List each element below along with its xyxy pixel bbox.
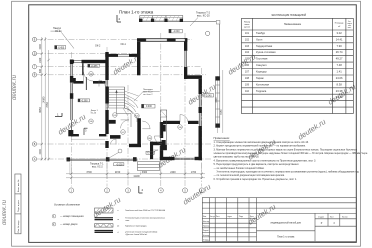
svg-text:1. Спецификацию элементов запо: 1. Спецификацию элементов заполнения две… bbox=[214, 141, 310, 144]
interior wall hall bottom bbox=[73, 81, 83, 84]
windows right wall bbox=[198, 94, 200, 107]
svg-text:индивидуальный жилой дом: индивидуальный жилой дом bbox=[271, 221, 302, 224]
svg-text:выс. КС-2: выс. КС-2 bbox=[92, 166, 103, 169]
svg-text:Холл: Холл bbox=[256, 37, 263, 41]
windows left wall bbox=[70, 64, 72, 76]
LEGEND bbox=[53, 204, 84, 226]
corridor walls bbox=[109, 120, 116, 124]
table rows bbox=[245, 31, 343, 99]
svg-text:-1.040: -1.040 bbox=[205, 95, 212, 97]
top wall window boxes bbox=[146, 39, 185, 41]
svg-text:105: 105 bbox=[245, 58, 250, 61]
svg-text:2. Кирпич предусмотреть керами: 2. Кирпич предусмотреть керамический пол… bbox=[214, 145, 307, 148]
svg-text:deutek.ru: deutek.ru bbox=[2, 199, 8, 225]
svg-text:— по технологической документа: — по технологической документации постав… bbox=[214, 174, 286, 177]
windows as double thin lines bbox=[67, 51, 202, 161]
left dim texts rotated bbox=[39, 44, 49, 155]
svg-text:8.38: 8.38 bbox=[336, 82, 342, 86]
svg-text:800: 800 bbox=[39, 68, 42, 73]
stair arrow bbox=[117, 92, 132, 127]
svg-text:Теплоизоляция из жестких минер: Теплоизоляция из жестких минераловатных bbox=[125, 217, 165, 219]
svg-text:Гардеробная: Гардеробная bbox=[256, 44, 273, 48]
window sill tint bbox=[70, 51, 201, 126]
svg-text:2150: 2150 bbox=[115, 171, 121, 174]
closet partition bbox=[82, 63, 83, 75]
bottom dimension lines bbox=[66, 174, 205, 178]
svg-text:1700: 1700 bbox=[191, 171, 197, 174]
top-left wall bbox=[70, 60, 74, 63]
svg-text:23.38: 23.38 bbox=[336, 89, 343, 93]
axis B horizontal bbox=[37, 143, 212, 145]
svg-text:Санузел: Санузел bbox=[256, 63, 267, 67]
winders bbox=[125, 87, 138, 122]
svg-text:8150: 8150 bbox=[221, 109, 223, 115]
top wall center section bbox=[137, 38, 187, 42]
window axis2 wall bbox=[105, 80, 107, 87]
axis circle top right bbox=[205, 31, 209, 35]
svg-text:102: 102 bbox=[245, 38, 250, 41]
right porch strip bbox=[216, 77, 220, 128]
svg-text:цветом показаны трубы на листе: цветом показаны трубы на листе АС-18. bbox=[214, 156, 260, 159]
jog wall bbox=[184, 75, 202, 79]
svg-text:110: 110 bbox=[245, 90, 250, 93]
stair annotation bbox=[143, 89, 154, 96]
svg-text:взрыв: взрыв bbox=[348, 23, 352, 25]
window top D wall bbox=[118, 54, 129, 56]
dimension extension lines bottom bbox=[70, 163, 202, 180]
svg-text:Нач.отд: Нач.отд bbox=[203, 221, 209, 223]
svg-text:1300: 1300 bbox=[39, 57, 42, 63]
svg-text:3.02: 3.02 bbox=[336, 31, 342, 35]
svg-text:101: 101 bbox=[245, 32, 250, 35]
elevation marks bbox=[55, 46, 57, 50]
axis A horizontal bbox=[37, 158, 212, 160]
svg-text:Подп. и дата: Подп. и дата bbox=[18, 199, 20, 212]
svg-text:— номер двери: — номер двери bbox=[60, 223, 78, 226]
svg-text:ОК-2: ОК-2 bbox=[95, 44, 101, 47]
watermark deutek.ru repeated bbox=[2, 52, 358, 227]
window right upper bbox=[184, 51, 186, 67]
svg-text:6. Устройство проемов в перего: 6. Устройство проемов в перегородках см.… bbox=[214, 178, 298, 181]
axis circles left column bbox=[32, 37, 36, 161]
svg-text:№док: №док bbox=[227, 215, 232, 218]
svg-text:Терраса: Терраса bbox=[256, 89, 267, 93]
garage divider wall bbox=[163, 121, 180, 124]
svg-text:элементы производства консульт: элементы производства консультаций. Несу… bbox=[214, 152, 369, 155]
svg-text:Лист: Лист bbox=[216, 216, 220, 218]
svg-text:План 1-го этажа: План 1-го этажа bbox=[119, 9, 154, 14]
svg-text:Подп: Подп bbox=[239, 216, 243, 218]
svg-text:Лист: Лист bbox=[330, 216, 334, 218]
svg-text:24.06: 24.06 bbox=[336, 76, 343, 80]
svg-text:утепление блоков толщиной 100м: утепление блоков толщиной 100мм bbox=[125, 230, 158, 233]
door arcs bbox=[84, 72, 189, 155]
svg-text:1.41: 1.41 bbox=[336, 70, 342, 74]
top wall D section bbox=[105, 54, 118, 57]
legend texts bbox=[125, 209, 166, 236]
interior partition lower-left bbox=[71, 134, 79, 136]
svg-text:опас.: опас. bbox=[348, 27, 352, 29]
svg-text:Кол.уч: Кол.уч bbox=[210, 216, 215, 218]
ventilation shaft column bbox=[162, 125, 166, 132]
svg-text:3. Монтаж бетонных перемычек и: 3. Монтаж бетонных перемычек из доборных… bbox=[214, 148, 358, 151]
svg-text:выс. КС-20: выс. КС-20 bbox=[197, 15, 210, 18]
left wall bbox=[70, 60, 73, 65]
bottom dim texts bbox=[86, 171, 196, 178]
axis 4 vertical bbox=[160, 33, 162, 187]
svg-text:плит: плит bbox=[125, 220, 129, 222]
svg-text:0.000: 0.000 bbox=[146, 106, 152, 108]
svg-text:КС-16: КС-16 bbox=[91, 113, 96, 115]
svg-text:3700: 3700 bbox=[86, 171, 92, 174]
svg-text:49.27: 49.27 bbox=[336, 57, 343, 61]
section mark 2 top bbox=[117, 15, 121, 22]
svg-text:ЭКСПЛИКАЦИЯ ПОМЕЩЕНИЙ: ЭКСПЛИКАЦИЯ ПОМЕЩЕНИЙ bbox=[271, 14, 306, 17]
svg-text:3290: 3290 bbox=[216, 97, 218, 103]
svg-text:см. болт 2: см. болт 2 bbox=[143, 94, 153, 96]
svg-text:ОК-1: ОК-1 bbox=[121, 43, 127, 46]
section mark 2 bottom bbox=[139, 186, 143, 193]
svg-text:93.49: 93.49 bbox=[336, 95, 343, 99]
door number circle near entrance bbox=[118, 149, 122, 153]
svg-text:108: 108 bbox=[245, 77, 250, 80]
terrace T-2 top boundary bbox=[139, 21, 220, 76]
axis D horizontal bbox=[37, 53, 142, 55]
left dim ticks bbox=[41, 38, 50, 160]
bottom right wall (garage) bbox=[160, 157, 175, 160]
svg-text:щения: щения bbox=[244, 26, 250, 28]
svg-text:106: 106 bbox=[245, 64, 250, 67]
right dimension lines bbox=[218, 70, 223, 133]
terrace T-1 edge double line bbox=[67, 158, 138, 160]
axis G horizontal bbox=[37, 66, 202, 68]
svg-text:Провер.: Провер. bbox=[203, 226, 210, 228]
svg-text:109: 109 bbox=[245, 83, 250, 86]
svg-text:Утеплитель перегородок, прокла: Утеплитель перегородок, прокладки их в с… bbox=[217, 171, 360, 174]
small labels bbox=[53, 27, 127, 169]
left dimension lines bbox=[42, 37, 49, 161]
right wall lower bbox=[199, 79, 202, 94]
svg-text:Инв. № подл.: Инв. № подл. bbox=[17, 220, 20, 233]
svg-text:2400: 2400 bbox=[170, 171, 176, 174]
garage door bbox=[175, 157, 195, 159]
door flag mark bbox=[84, 128, 88, 135]
axis 1 vertical bbox=[70, 52, 72, 187]
svg-text:Кухня-столовая: Кухня-столовая bbox=[256, 50, 276, 54]
axis 6 vertical bbox=[201, 68, 203, 187]
svg-text:Дата: Дата bbox=[250, 216, 254, 218]
svg-text:-0.450: -0.450 bbox=[147, 153, 154, 155]
stairs bbox=[109, 87, 138, 122]
center protrusion west wall bbox=[137, 42, 140, 76]
WALLS bbox=[67, 38, 202, 161]
svg-text:Гараж: Гараж bbox=[256, 76, 264, 80]
svg-text:Кирпичная перегородка: Кирпичная перегородка bbox=[125, 226, 147, 228]
svg-text:Утверд.: Утверд. bbox=[203, 239, 210, 241]
axis circles bottom row bbox=[69, 188, 204, 193]
svg-text:-1.040: -1.040 bbox=[173, 31, 180, 33]
vestibule walls bbox=[150, 142, 167, 160]
terrace T-2 label bbox=[196, 12, 211, 18]
section line segment bbox=[85, 77, 88, 90]
window top-left wall bbox=[74, 60, 81, 62]
svg-text:Стадия: Стадия bbox=[318, 216, 324, 218]
svg-text:Котельная: Котельная bbox=[256, 82, 270, 86]
canopy band above terrace bbox=[140, 16, 183, 22]
svg-text:Тамбур: Тамбур bbox=[256, 31, 266, 35]
svg-text:Разраб.: Разраб. bbox=[203, 230, 210, 232]
table header bbox=[244, 21, 352, 29]
axis E horizontal bbox=[37, 38, 192, 40]
svg-text:7450: 7450 bbox=[46, 102, 49, 108]
svg-text:1500: 1500 bbox=[39, 44, 42, 50]
grid axes dash-dot bbox=[37, 33, 212, 187]
axis V horizontal bbox=[37, 74, 206, 76]
svg-text:6950: 6950 bbox=[39, 107, 42, 113]
entrance steps bbox=[138, 162, 160, 171]
svg-text:deutek.ru: deutek.ru bbox=[12, 74, 18, 100]
svg-text:1500: 1500 bbox=[39, 149, 42, 155]
svg-text:14.41: 14.41 bbox=[336, 37, 343, 41]
axis 3 vertical bbox=[127, 85, 129, 187]
axis 5 vertical bbox=[184, 33, 186, 187]
svg-text:7.90: 7.90 bbox=[336, 44, 342, 48]
svg-text:План 1-го этажа: План 1-го этажа bbox=[277, 236, 295, 238]
svg-text:103: 103 bbox=[245, 45, 250, 48]
svg-text:-0.450: -0.450 bbox=[58, 47, 65, 49]
right upper wall bbox=[184, 38, 187, 51]
shaft outline bbox=[161, 110, 167, 150]
left margin stamp boxes bbox=[15, 174, 21, 234]
bathroom threshold line bbox=[71, 138, 105, 140]
svg-text:5. Перегородки предусмотреть в: 5. Перегородки предусмотреть в два вариа… bbox=[214, 163, 300, 166]
svg-text:«Данные блоки 500кг/м»: «Данные блоки 500кг/м» bbox=[125, 234, 147, 236]
axis 2 vertical bbox=[106, 47, 108, 187]
svg-text:-0.360: -0.360 bbox=[81, 101, 88, 103]
svg-text:КС-2х: КС-2х bbox=[55, 30, 62, 33]
section mark 1 left bbox=[55, 113, 62, 117]
svg-text:4. Выполнить коммуникационные: 4. Выполнить коммуникационные шахты и ве… bbox=[214, 159, 317, 162]
svg-text:Взам. инв. №: Взам. инв. № bbox=[17, 179, 20, 192]
svg-text:14590: 14590 bbox=[42, 96, 45, 103]
terrace T-1 edge posts bbox=[67, 157, 71, 161]
svg-text:-0.450: -0.450 bbox=[91, 66, 98, 68]
svg-text:Наименование: Наименование bbox=[284, 23, 302, 26]
svg-text:— номер помещения: — номер помещения bbox=[60, 215, 84, 218]
svg-text:Гостиная: Гостиная bbox=[256, 57, 268, 61]
svg-text:Листов: Листов bbox=[342, 216, 348, 218]
svg-text:107: 107 bbox=[245, 71, 250, 74]
svg-text:Газобетонный блок D500 по ГОСТ: Газобетонный блок D500 по ГОСТ 31360-НН bbox=[125, 209, 166, 212]
svg-text:3300: 3300 bbox=[142, 171, 148, 174]
svg-text:104: 104 bbox=[245, 51, 250, 54]
garage left wall bbox=[160, 122, 163, 138]
svg-text:11100: 11100 bbox=[133, 175, 140, 178]
legend hatch samples bbox=[95, 208, 114, 233]
svg-text:— из газобетонных блоков толщи: — из газобетонных блоков толщиной 120мм. bbox=[214, 167, 265, 170]
svg-text:Примечания:: Примечания: bbox=[214, 136, 231, 140]
svg-text:7.48: 7.48 bbox=[336, 63, 342, 67]
svg-text:Коридор: Коридор bbox=[256, 70, 267, 74]
svg-text:Условные обозначения: Условные обозначения bbox=[54, 204, 81, 207]
svg-text:к: к bbox=[118, 210, 119, 212]
legend symbol glyphs bbox=[117, 210, 120, 234]
svg-text:26.74: 26.74 bbox=[336, 50, 343, 54]
axis2 wall (stair west) bbox=[105, 52, 108, 80]
svg-text:м²: м² bbox=[338, 25, 340, 28]
room number circles bbox=[89, 72, 183, 141]
svg-text:-0.600: -0.600 bbox=[116, 164, 123, 166]
TITLE BLOCK bbox=[202, 198, 356, 242]
svg-text:Н.контр.: Н.контр. bbox=[203, 235, 210, 237]
NOTES bbox=[214, 136, 369, 181]
svg-text:Площадь: Площадь bbox=[335, 23, 344, 25]
